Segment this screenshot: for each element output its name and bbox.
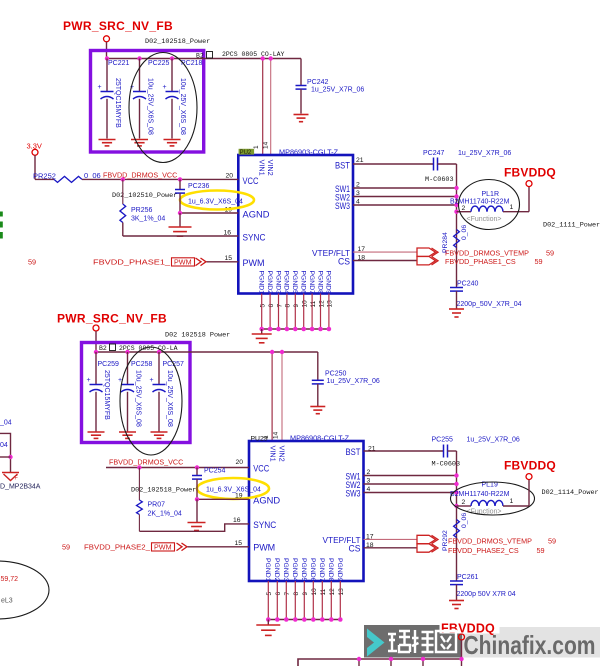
svg-text:PC225: PC225 bbox=[148, 60, 170, 67]
svg-text:B2: B2 bbox=[196, 53, 204, 60]
bus drop wire 2 bbox=[390, 659, 392, 666]
svg-text:10u_25V_X6S_08: 10u_25V_X6S_08 bbox=[147, 78, 154, 135]
junction dot PGND bus (bottom) bbox=[329, 617, 334, 622]
svg-text:+: + bbox=[98, 84, 102, 91]
svg-text:PR07: PR07 bbox=[148, 502, 166, 509]
pin wire BST (21) bbox=[353, 163, 434, 165]
svg-text:25TQC15MYFB: 25TQC15MYFB bbox=[103, 370, 110, 420]
svg-text:13: 13 bbox=[327, 300, 334, 308]
junction dots bottom bus bbox=[357, 657, 361, 661]
svg-text:1u_25V_X7R_06: 1u_25V_X7R_06 bbox=[311, 87, 364, 94]
watermark CJK glyph 3 bbox=[436, 631, 456, 652]
bus drop wire 1 bbox=[358, 659, 360, 666]
svg-text:D02_1114_Power: D02_1114_Power bbox=[542, 489, 599, 497]
svg-text:14: 14 bbox=[273, 431, 280, 439]
svg-text:9: 9 bbox=[302, 592, 309, 596]
annotation ellipse (PL1R) bbox=[459, 180, 520, 230]
svg-text:PGND5: PGND5 bbox=[291, 271, 298, 295]
svg-text:25TQC15MYFB: 25TQC15MYFB bbox=[114, 78, 121, 128]
power label FBVDDQ (bottom) bbox=[440, 619, 500, 634]
power node FBVDDQ (top) bbox=[526, 181, 532, 187]
svg-text:D02 102518 Power: D02 102518 Power bbox=[165, 332, 230, 340]
ground (PC258) bbox=[119, 431, 136, 433]
svg-text:PGND2: PGND2 bbox=[266, 271, 273, 295]
svg-text:11: 11 bbox=[320, 588, 327, 595]
svg-text:1u_25V_X7R_06: 1u_25V_X7R_06 bbox=[458, 150, 511, 157]
annotation ellipse (PL19) bbox=[451, 482, 535, 515]
svg-text:VCC: VCC bbox=[243, 176, 259, 186]
junction dot PGND bus bbox=[268, 327, 273, 332]
inductor PL1R bbox=[457, 211, 472, 213]
svg-text:2: 2 bbox=[462, 499, 466, 506]
svg-text:59,72: 59,72 bbox=[1, 576, 19, 583]
wire VIN2 stub (PU2 pin 14) bbox=[270, 59, 272, 156]
svg-text:Chinafix.com: Chinafix.com bbox=[464, 630, 596, 660]
svg-text:FBVDD_PHASE1_CS: FBVDD_PHASE1_CS bbox=[445, 257, 516, 266]
svg-text:PGND2: PGND2 bbox=[273, 558, 280, 582]
node dots on top rail bbox=[105, 56, 109, 60]
wire power node to cap bank bbox=[106, 42, 108, 59]
svg-text:20: 20 bbox=[235, 459, 243, 466]
svg-text:M-C0603: M-C0603 bbox=[425, 176, 454, 184]
edge wire stub bbox=[0, 456, 11, 458]
pin wire PWM (15) port link bbox=[207, 261, 239, 263]
svg-text:PWR_SRC_NV_FB: PWR_SRC_NV_FB bbox=[57, 312, 167, 326]
annotation ellipse (bottom-left partial) bbox=[0, 561, 49, 619]
svg-text:PWM: PWM bbox=[253, 543, 275, 553]
svg-text:59: 59 bbox=[62, 543, 70, 552]
svg-text:PGND1: PGND1 bbox=[264, 558, 271, 582]
svg-text:20: 20 bbox=[225, 173, 233, 180]
svg-text:PGND7: PGND7 bbox=[318, 558, 325, 582]
PGND bus wire (bottom chip) bbox=[268, 619, 340, 621]
buck converter U PU2 MP86903-CGLT-Z body bbox=[238, 155, 353, 294]
pin wire CS (PU23 18) bbox=[364, 547, 418, 549]
svg-text:10u_25V_X6S_08: 10u_25V_X6S_08 bbox=[135, 370, 142, 427]
svg-text:BST: BST bbox=[335, 160, 350, 170]
svg-text:FBVDD_DRMOS_VCC: FBVDD_DRMOS_VCC bbox=[109, 458, 183, 467]
svg-text:D02_102518_Power: D02_102518_Power bbox=[145, 38, 210, 46]
junction dot PGND bus bbox=[310, 327, 315, 332]
junction dot PGND bus bbox=[293, 327, 298, 332]
wire PR07 to SYNC bbox=[138, 515, 140, 532]
annotation ellipse (top cap bank) bbox=[129, 53, 197, 163]
value highlight ellipse (PC236) bbox=[180, 191, 254, 210]
svg-text:FBVDDQ: FBVDDQ bbox=[504, 166, 556, 180]
capacitor PC250 bbox=[317, 352, 319, 380]
svg-text:PGND4: PGND4 bbox=[291, 558, 298, 582]
wire VIN1 stub (PU2 pin 1) bbox=[262, 59, 264, 156]
junction dot PGND bus bbox=[259, 327, 264, 332]
svg-text:7: 7 bbox=[284, 592, 291, 596]
junction dot PGND bus (bottom) bbox=[338, 617, 343, 622]
svg-text:14: 14 bbox=[263, 141, 270, 149]
svg-text:0_06: 0_06 bbox=[84, 171, 101, 180]
port FBVDD_DRMOS_VTEMP (top) bbox=[417, 248, 436, 256]
svg-text:6: 6 bbox=[275, 592, 282, 596]
svg-text:6: 6 bbox=[268, 304, 275, 308]
svg-text:59: 59 bbox=[537, 546, 545, 555]
junction dots SW node (bottom) bbox=[454, 473, 458, 477]
SW merge vertical wire (top) bbox=[456, 164, 458, 288]
svg-text:_04: _04 bbox=[0, 420, 12, 427]
pin wire SW1 (PU23 2) bbox=[364, 475, 457, 477]
svg-text:1u_6.3V_X6S_04: 1u_6.3V_X6S_04 bbox=[206, 487, 261, 494]
svg-text:PC247: PC247 bbox=[423, 150, 445, 157]
pin wire SW3 (PU23 4) bbox=[364, 492, 457, 494]
svg-text:PGND6: PGND6 bbox=[309, 558, 316, 582]
svg-text:SW3: SW3 bbox=[346, 489, 361, 499]
junction dot PGND bus bbox=[318, 327, 323, 332]
svg-text:PGND7: PGND7 bbox=[308, 271, 315, 295]
svg-text:2200p_50V_X7R_04: 2200p_50V_X7R_04 bbox=[457, 301, 522, 308]
svg-text:VIN1: VIN1 bbox=[268, 446, 277, 462]
svg-text:2: 2 bbox=[462, 205, 466, 212]
junction dot PGND bus (bottom) bbox=[266, 617, 271, 622]
svg-text:10: 10 bbox=[311, 588, 318, 596]
svg-text:D02_102518_Power: D02_102518_Power bbox=[131, 487, 196, 495]
junction dot VCC/PC254 bbox=[195, 465, 199, 469]
svg-text:3K_1%_04: 3K_1%_04 bbox=[131, 216, 165, 223]
wire PC254 to AGND (PU23) bbox=[196, 479, 198, 499]
svg-text:1u_25V_X7R_06: 1u_25V_X7R_06 bbox=[327, 378, 380, 385]
ground (PU2 PGND) bbox=[252, 333, 272, 335]
junction dots SW node bbox=[454, 186, 458, 190]
pin wire BST (PU23 21) bbox=[364, 450, 444, 452]
wire PGND bus to ground bbox=[261, 329, 263, 334]
ground (PC242) bbox=[294, 114, 309, 116]
pin wire SYNC (PU23 16) bbox=[139, 524, 249, 531]
svg-text:11: 11 bbox=[310, 300, 317, 307]
junction dot PGND bus bbox=[301, 327, 306, 332]
wire BST cap to SW node (bottom) bbox=[448, 450, 457, 452]
svg-text:VCC: VCC bbox=[253, 464, 269, 474]
svg-text:1u_25V_X7R_06: 1u_25V_X7R_06 bbox=[467, 437, 520, 444]
junction dot PGND bus bbox=[276, 327, 281, 332]
pin wire SW1 (2) bbox=[353, 187, 457, 189]
svg-text:PC221: PC221 bbox=[108, 60, 130, 67]
svg-text:12: 12 bbox=[318, 300, 325, 308]
svg-text:59: 59 bbox=[548, 537, 556, 546]
svg-text:<Function>: <Function> bbox=[467, 216, 502, 223]
pin wire SW3 (4) bbox=[353, 204, 457, 206]
wire PC236 to AGND bbox=[179, 193, 181, 213]
junction dot PGND bus (bottom) bbox=[293, 617, 298, 622]
ground (PC225) bbox=[131, 139, 148, 141]
svg-text:1: 1 bbox=[510, 498, 514, 505]
edge junction dot bbox=[8, 455, 12, 459]
wire FBVDDQ to bottom bus bbox=[461, 640, 463, 659]
wire PR256 to SYNC pin (16) bbox=[122, 223, 124, 237]
svg-text:PWR_SRC_NV_FB: PWR_SRC_NV_FB bbox=[63, 19, 173, 33]
value highlight ellipse (PC254) bbox=[197, 478, 269, 499]
svg-text:PC259: PC259 bbox=[98, 361, 120, 368]
pin wire SW2 (3) bbox=[353, 196, 457, 198]
junction dot PR07 top bbox=[137, 465, 141, 469]
junction dot AGND (PU23) bbox=[195, 497, 199, 501]
resistor PR07 bbox=[138, 468, 140, 501]
watermark chevron logo bbox=[367, 629, 385, 657]
svg-text:FBVDD_DRMOS_VCC: FBVDD_DRMOS_VCC bbox=[103, 171, 177, 180]
svg-text:0_06: 0_06 bbox=[461, 225, 468, 240]
power rail wire (bottom) bbox=[96, 351, 318, 353]
svg-text:MP86908-CGLT-Z: MP86908-CGLT-Z bbox=[290, 434, 350, 443]
svg-text:+: + bbox=[87, 377, 91, 384]
capacitor PC254 bbox=[196, 468, 198, 476]
svg-text:1u_6.3V_X6S_04: 1u_6.3V_X6S_04 bbox=[188, 199, 243, 206]
svg-text:12: 12 bbox=[329, 588, 336, 596]
svg-text:BST: BST bbox=[346, 447, 361, 457]
svg-text:59: 59 bbox=[546, 249, 554, 258]
svg-text:8: 8 bbox=[285, 304, 292, 308]
pin wire VTEP/FLT (PU23 17) bbox=[364, 538, 418, 540]
resistor PR256 bbox=[122, 179, 124, 204]
ground flag GND_MP2B34A bbox=[2, 472, 19, 474]
resistor PR292 bbox=[454, 520, 460, 538]
wire PL19 to FBVDDQ bbox=[528, 480, 530, 506]
wire VIN2 stub (PU23 pin 14) bbox=[281, 352, 283, 441]
bus drop wire 3 bbox=[422, 659, 424, 666]
wire PL1R to FBVDDQ bbox=[528, 187, 530, 212]
svg-text:10: 10 bbox=[302, 300, 309, 308]
svg-text:PGND8: PGND8 bbox=[327, 558, 334, 582]
svg-text:VIN1: VIN1 bbox=[258, 160, 267, 176]
svg-text:21: 21 bbox=[356, 157, 364, 164]
wire PR252 to VCC pin bbox=[82, 178, 238, 180]
svg-text:SW3: SW3 bbox=[335, 201, 350, 211]
svg-text:2PCS 0805 CO-LA: 2PCS 0805 CO-LA bbox=[119, 345, 178, 352]
svg-text:PL1R: PL1R bbox=[482, 191, 500, 198]
svg-text:CS: CS bbox=[338, 256, 350, 266]
svg-text:PWM: PWM bbox=[174, 257, 192, 266]
svg-text:9: 9 bbox=[293, 304, 300, 308]
wire PGND bus to ground (bottom) bbox=[267, 620, 269, 625]
pin wire AGND (19) bbox=[180, 212, 238, 214]
svg-text:PC236: PC236 bbox=[188, 183, 210, 190]
resistor PR284 bbox=[454, 230, 460, 248]
power node FBVDDQ circle (bottom) bbox=[459, 634, 465, 640]
svg-text:PU2: PU2 bbox=[240, 150, 252, 156]
ground (PC218) bbox=[164, 139, 181, 141]
svg-text:PGND3: PGND3 bbox=[282, 558, 289, 582]
svg-text:2K_1%_04: 2K_1%_04 bbox=[148, 511, 182, 518]
SW merge vertical wire (bottom) bbox=[456, 451, 458, 582]
node dots on bottom rail bbox=[94, 350, 98, 354]
svg-text:PC255: PC255 bbox=[432, 437, 454, 444]
pin wire AGND (PU23 19) bbox=[197, 498, 249, 500]
svg-text:FBVDD_DRMOS_VTEMP: FBVDD_DRMOS_VTEMP bbox=[448, 537, 532, 546]
svg-text:10u_25V_X6S_08: 10u_25V_X6S_08 bbox=[179, 78, 186, 135]
junction dot PGND bus (bottom) bbox=[311, 617, 316, 622]
ground (PC236/AGND) bbox=[169, 226, 192, 228]
svg-text:B2: B2 bbox=[99, 345, 107, 352]
svg-text:PGND1: PGND1 bbox=[258, 271, 265, 295]
bus drop wire 4 bbox=[461, 659, 463, 666]
svg-text:FBVDDQ: FBVDDQ bbox=[504, 459, 556, 473]
svg-text:2200p 50V X7R 04: 2200p 50V X7R 04 bbox=[457, 591, 516, 598]
svg-text:PWM: PWM bbox=[243, 258, 265, 268]
junction dot PGND bus (bottom) bbox=[320, 617, 325, 622]
svg-text:eL3: eL3 bbox=[1, 598, 13, 605]
svg-text:FBVDD_PHASE2_: FBVDD_PHASE2_ bbox=[84, 543, 151, 552]
svg-text:M-C0603: M-C0603 bbox=[432, 461, 461, 469]
junction dot PGND bus bbox=[327, 327, 332, 332]
junction dot PR256 top bbox=[121, 177, 125, 181]
svg-text:PU23: PU23 bbox=[251, 435, 268, 442]
svg-text:B2MH11740-R22M: B2MH11740-R22M bbox=[450, 491, 510, 498]
ground (PC250) bbox=[310, 406, 325, 408]
refdes PU2 highlight bbox=[239, 149, 255, 155]
junction dot PGND bus bbox=[285, 327, 290, 332]
svg-text:04: 04 bbox=[0, 442, 8, 449]
power rail wire (top) bbox=[107, 58, 301, 60]
junction dot AGND bbox=[178, 211, 182, 215]
ground (PC254/AGND) bbox=[188, 522, 206, 524]
port FBVDD_DRMOS_VTEMP (bottom) bbox=[417, 535, 436, 543]
svg-text:PR252: PR252 bbox=[33, 172, 56, 181]
watermark light panel bbox=[462, 627, 600, 658]
port FBVDD_PHASE2_CS bbox=[417, 544, 436, 552]
pin wire VCC (PU23 20) bbox=[106, 467, 249, 469]
pin wire CS (18) bbox=[353, 260, 417, 262]
buck converter U PU23 MP86908-CGLT-Z body bbox=[249, 441, 364, 581]
svg-text:1: 1 bbox=[253, 145, 260, 149]
junction dot PGND bus (bottom) bbox=[302, 617, 307, 622]
wire power node to bottom rail bbox=[95, 331, 97, 352]
ground (PC259) bbox=[88, 431, 105, 433]
svg-text:7: 7 bbox=[276, 304, 283, 308]
svg-text:59: 59 bbox=[28, 257, 36, 266]
svg-text:10u_25V_X6S_08: 10u_25V_X6S_08 bbox=[166, 370, 173, 427]
svg-text:FBVDD_PHASE1_: FBVDD_PHASE1_ bbox=[93, 257, 171, 266]
svg-text:PC240: PC240 bbox=[457, 281, 479, 288]
svg-text:PC258: PC258 bbox=[131, 361, 153, 368]
svg-text:PGND9: PGND9 bbox=[325, 271, 332, 295]
svg-text:VIN2: VIN2 bbox=[278, 446, 287, 462]
svg-text:PC242: PC242 bbox=[307, 79, 329, 86]
svg-text:PC254: PC254 bbox=[204, 468, 226, 475]
bottom distribution bus bbox=[298, 659, 462, 666]
port FBVDD_PHASE1_CS bbox=[417, 257, 436, 265]
svg-text:D_MP2B34A: D_MP2B34A bbox=[0, 484, 41, 491]
svg-text:59: 59 bbox=[535, 257, 543, 266]
svg-text:0_06: 0_06 bbox=[461, 513, 468, 528]
wire BST cap to SW node bbox=[438, 163, 457, 165]
svg-text:1: 1 bbox=[510, 204, 514, 211]
svg-text:PGND5: PGND5 bbox=[300, 558, 307, 582]
PGND bus wire (top chip) bbox=[262, 328, 329, 330]
svg-text:VIN2: VIN2 bbox=[266, 160, 275, 176]
green edge marks bbox=[0, 212, 3, 217]
svg-text:PGND8: PGND8 bbox=[316, 271, 323, 295]
junction dot PGND bus (bottom) bbox=[275, 617, 280, 622]
watermark CJK glyph 2 bbox=[412, 630, 434, 653]
svg-text:8: 8 bbox=[293, 592, 300, 596]
ground (PU23 PGND) bbox=[256, 624, 280, 626]
svg-text:MP86903-CGLT-Z: MP86903-CGLT-Z bbox=[279, 148, 339, 157]
watermark dark panel bbox=[364, 625, 462, 658]
svg-text:CS: CS bbox=[349, 544, 361, 554]
svg-text:PC261: PC261 bbox=[457, 574, 479, 581]
svg-text:D02_102510_Power: D02_102510_Power bbox=[112, 192, 177, 200]
svg-text:2PCS 0805 CO-LAY: 2PCS 0805 CO-LAY bbox=[222, 51, 285, 58]
svg-text:SYNC: SYNC bbox=[243, 233, 266, 243]
svg-text:13: 13 bbox=[338, 588, 345, 596]
cap-bank box 1 (purple) bbox=[91, 51, 204, 153]
svg-text:PR256: PR256 bbox=[131, 207, 153, 214]
junction dot VCC/PC236 bbox=[178, 177, 182, 181]
svg-text:AGND: AGND bbox=[243, 210, 271, 220]
power node FBVDDQ (bottom right) bbox=[526, 474, 532, 480]
svg-text:FBVDD_PHASE2_CS: FBVDD_PHASE2_CS bbox=[448, 546, 519, 555]
svg-text:SYNC: SYNC bbox=[253, 520, 276, 530]
svg-text:PGND3: PGND3 bbox=[274, 271, 281, 295]
ground (PC240) bbox=[449, 308, 464, 310]
cap-bank box 2 (purple) bbox=[82, 343, 191, 443]
pin wire VTEP/FLT (17) bbox=[353, 251, 417, 253]
wire AGND junction to ground bbox=[179, 213, 181, 227]
pin wire SW2 (PU23 3) bbox=[364, 483, 457, 485]
ground (PC261) bbox=[449, 600, 464, 602]
wire VIN1 stub (PU23 pin 1) bbox=[271, 352, 273, 441]
svg-text:16: 16 bbox=[233, 517, 241, 524]
wire AGND junction to ground (bottom) bbox=[196, 499, 198, 522]
pin wire PWM (PU23 15) bbox=[188, 546, 250, 548]
capacitor PC236 bbox=[179, 179, 181, 189]
junction dot PGND bus (bottom) bbox=[284, 617, 289, 622]
svg-text:PGND4: PGND4 bbox=[283, 271, 290, 295]
svg-text:15: 15 bbox=[224, 255, 232, 262]
svg-text:PC250: PC250 bbox=[325, 371, 347, 378]
svg-text:PC218: PC218 bbox=[181, 60, 203, 67]
wire 3.3V to PR252 bbox=[34, 155, 36, 179]
svg-text:PGND9: PGND9 bbox=[336, 558, 343, 582]
svg-text:+: + bbox=[163, 84, 167, 91]
watermark CJK glyph 1 bbox=[388, 631, 410, 652]
ground (PC221) bbox=[99, 139, 116, 141]
svg-text:PGND6: PGND6 bbox=[300, 271, 307, 295]
svg-text:5: 5 bbox=[260, 304, 267, 308]
power node circle (top cap bank) bbox=[104, 36, 110, 42]
svg-text:+: + bbox=[150, 377, 154, 384]
svg-text:PWM: PWM bbox=[154, 543, 172, 552]
svg-text:D02_1111_Power: D02_1111_Power bbox=[543, 222, 600, 230]
edge wire fragment bbox=[0, 433, 11, 472]
inductor PL19 bbox=[457, 505, 472, 507]
annotation ellipse (bottom cap bank) bbox=[120, 347, 182, 455]
svg-text:5: 5 bbox=[266, 592, 273, 596]
power node circle (bottom cap bank) bbox=[93, 325, 99, 331]
ground (PC257) bbox=[151, 431, 168, 433]
capacitor PC242 bbox=[300, 59, 302, 86]
svg-text:15: 15 bbox=[234, 540, 242, 547]
